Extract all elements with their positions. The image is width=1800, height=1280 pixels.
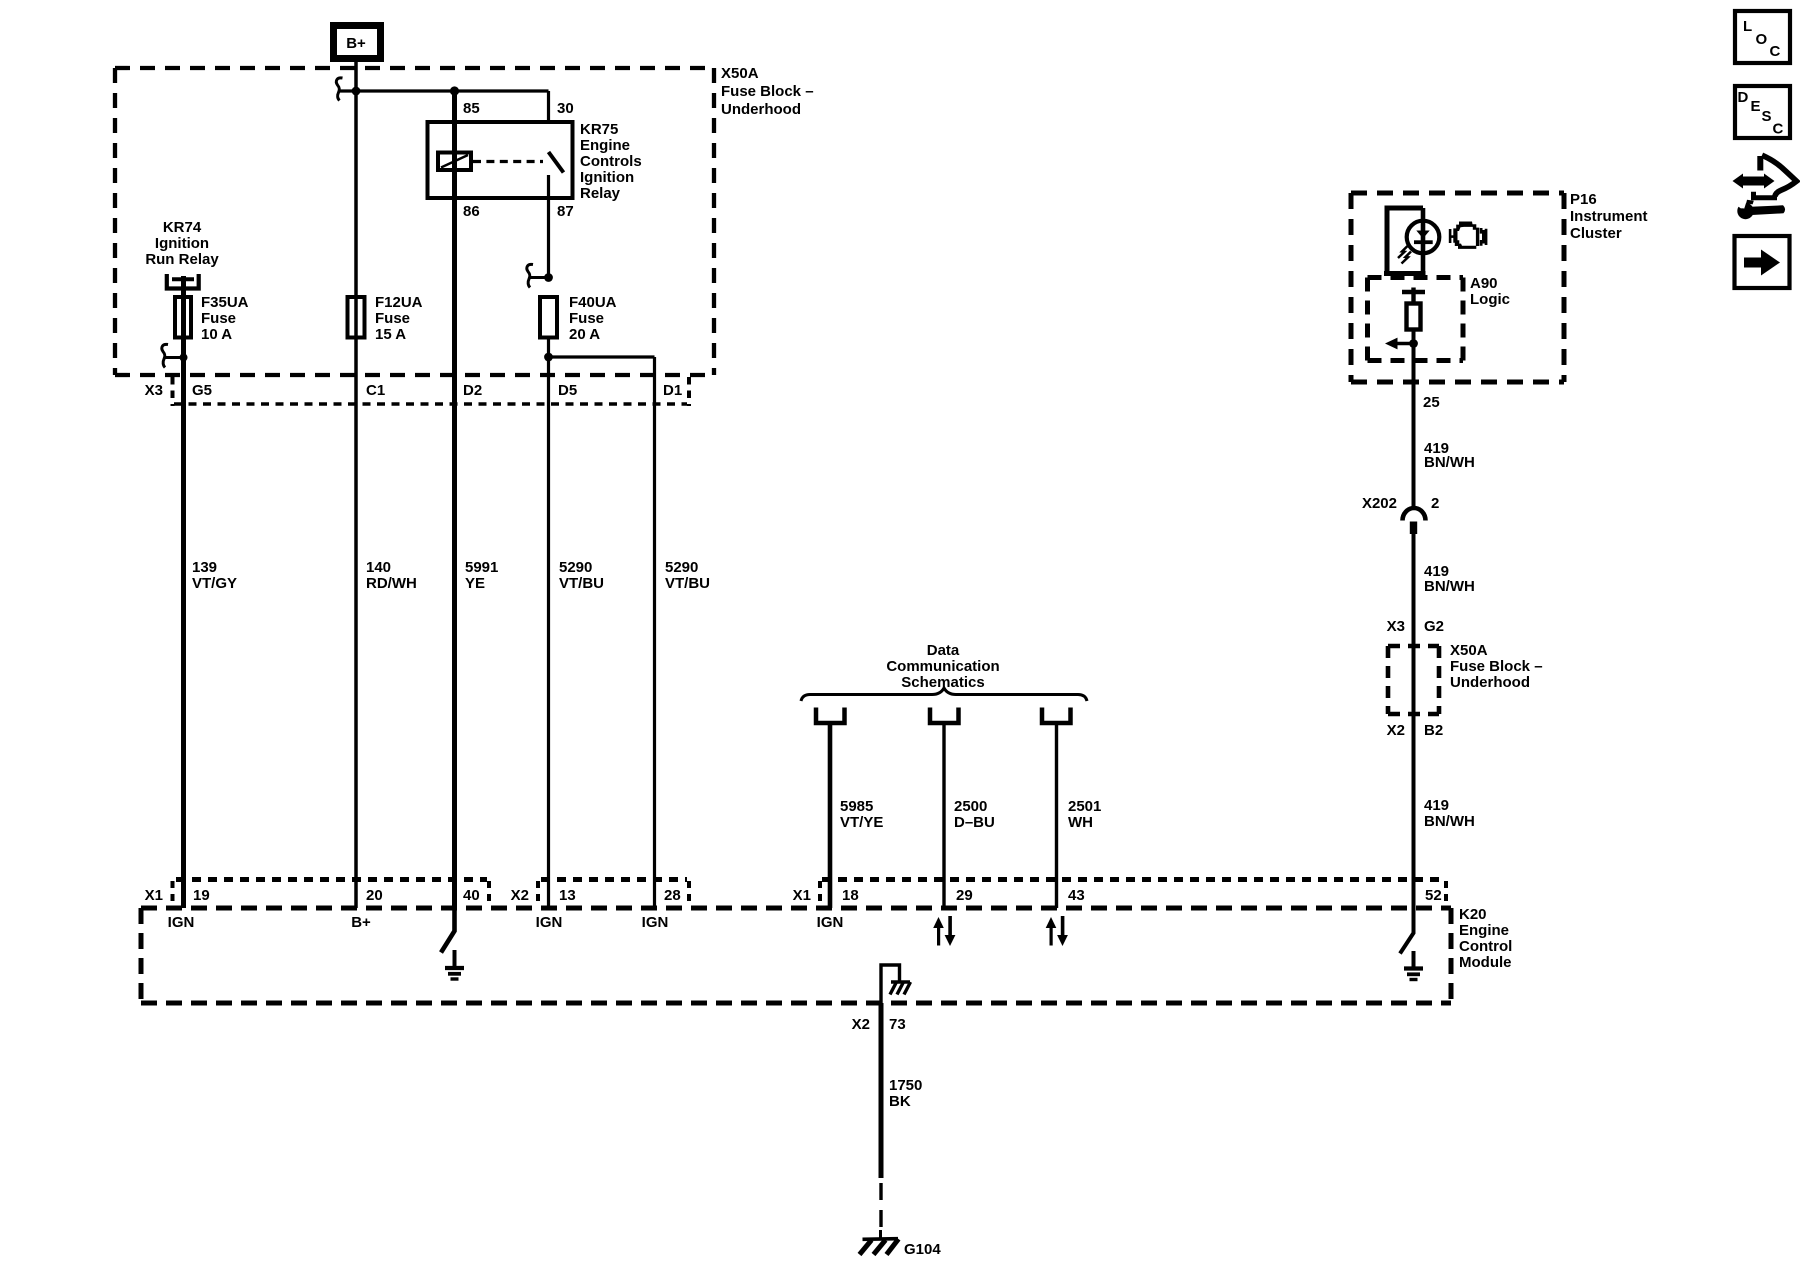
wire MIL output xyxy=(1412,330,1416,509)
icon forward arrow box xyxy=(1735,236,1790,288)
wire label 5290 VT/BU (D5) xyxy=(559,559,604,592)
bidirectional arrows pin 29 xyxy=(933,916,955,946)
svg-text:19: 19 xyxy=(193,887,210,904)
svg-text:BN/WH: BN/WH xyxy=(1424,813,1475,830)
svg-text:Fuse: Fuse xyxy=(375,310,410,327)
svg-text:5991: 5991 xyxy=(465,559,498,576)
svg-text:BN/WH: BN/WH xyxy=(1424,454,1475,471)
wire pin 85 xyxy=(452,91,457,908)
svg-text:2: 2 xyxy=(1431,495,1439,512)
fuse block X50A right dashed box xyxy=(1388,646,1439,714)
wire 1750 solid xyxy=(879,1003,884,1178)
svg-text:43: 43 xyxy=(1068,887,1085,904)
fuse block X50A dashed box xyxy=(115,68,714,375)
ECM K20 dashed box xyxy=(141,908,1451,1003)
resistor A90 body xyxy=(1407,304,1421,330)
svg-text:Instrument: Instrument xyxy=(1570,208,1648,225)
instrument cluster P16 dashed box xyxy=(1351,193,1564,382)
svg-text:X2: X2 xyxy=(852,1016,870,1033)
svg-text:29: 29 xyxy=(956,887,973,904)
svg-text:L: L xyxy=(1743,18,1752,35)
icon outline blob xyxy=(1754,155,1797,198)
svg-text:VT/BU: VT/BU xyxy=(559,575,604,592)
svg-text:18: 18 xyxy=(842,887,859,904)
ECM connector dotted line segment X2 xyxy=(541,877,687,882)
svg-text:D–BU: D–BU xyxy=(954,814,995,831)
svg-text:C: C xyxy=(1770,43,1781,60)
wire KR74 output xyxy=(181,276,186,908)
fuse block connector row dotted line xyxy=(174,402,687,406)
ECM separator 6 xyxy=(1444,881,1448,906)
internal ground wire near pin 73 xyxy=(881,965,900,1003)
svg-text:5290: 5290 xyxy=(559,559,592,576)
svg-text:1750: 1750 xyxy=(889,1077,922,1094)
svg-text:IGN: IGN xyxy=(168,914,195,931)
switch blade pin 52 xyxy=(1400,908,1414,954)
svg-text:B+: B+ xyxy=(351,914,371,931)
svg-text:Data: Data xyxy=(927,642,960,659)
svg-text:52: 52 xyxy=(1425,887,1442,904)
svg-text:IGN: IGN xyxy=(817,914,844,931)
relay KR75 switch blade xyxy=(549,152,564,173)
svg-text:40: 40 xyxy=(463,887,480,904)
lamp ray strokes xyxy=(1398,246,1411,264)
svg-text:25: 25 xyxy=(1423,394,1440,411)
off-page curl G5 branch xyxy=(166,356,184,359)
logic block A90 dashed box xyxy=(1368,278,1464,361)
svg-text:73: 73 xyxy=(889,1016,906,1033)
svg-text:Underhood: Underhood xyxy=(1450,674,1530,691)
relay KR74 terminal socket xyxy=(167,274,199,289)
ECM separator 3 xyxy=(536,881,540,906)
wire label 5991 YE xyxy=(465,559,498,592)
svg-text:E: E xyxy=(1751,98,1761,115)
ECM connector dotted line segment mid xyxy=(822,877,1444,882)
svg-text:G5: G5 xyxy=(192,382,212,399)
svg-text:Module: Module xyxy=(1459,954,1512,971)
label A90 Logic xyxy=(1470,275,1510,308)
svg-text:KR75: KR75 xyxy=(580,121,618,138)
wire label 5985 VT/YE xyxy=(840,798,883,831)
svg-text:20 A: 20 A xyxy=(569,326,600,343)
label X50A Fuse Block Underhood right xyxy=(1450,642,1543,691)
power symbol B+ xyxy=(334,26,381,59)
label F12UA Fuse 15 A xyxy=(375,294,423,343)
wire label 1750 BK xyxy=(889,1077,922,1110)
svg-text:KR74: KR74 xyxy=(163,219,202,236)
wire B+ vertical to pin 20 xyxy=(354,62,358,908)
svg-text:Relay: Relay xyxy=(580,185,621,202)
data terminal 1 xyxy=(816,708,845,724)
svg-text:5290: 5290 xyxy=(665,559,698,576)
svg-text:X50A: X50A xyxy=(1450,642,1488,659)
wire 419 to pin 52 xyxy=(1412,534,1416,908)
svg-text:5985: 5985 xyxy=(840,798,873,815)
switch blade pin 40 xyxy=(441,908,455,953)
wire label 2500 D-BU xyxy=(954,798,995,831)
svg-text:VT/BU: VT/BU xyxy=(665,575,710,592)
svg-text:Fuse Block –: Fuse Block – xyxy=(1450,658,1543,675)
svg-text:15 A: 15 A xyxy=(375,326,406,343)
ground under pin 40 xyxy=(445,950,464,979)
svg-text:140: 140 xyxy=(366,559,391,576)
svg-text:85: 85 xyxy=(463,100,480,117)
svg-text:BN/WH: BN/WH xyxy=(1424,578,1475,595)
icon DESC box xyxy=(1735,86,1790,138)
svg-text:A90: A90 xyxy=(1470,275,1498,292)
ECM separator 1 xyxy=(171,881,175,906)
icon wrench xyxy=(1733,197,1785,219)
svg-text:G104: G104 xyxy=(904,1241,941,1258)
connector separator X3 xyxy=(171,377,175,406)
svg-text:F35UA: F35UA xyxy=(201,294,249,311)
svg-text:Fuse: Fuse xyxy=(569,310,604,327)
relay KR75 coil xyxy=(438,153,471,171)
off-page curl above F40UA xyxy=(531,276,549,279)
fuse F40UA xyxy=(540,297,557,338)
svg-text:YE: YE xyxy=(465,575,485,592)
svg-text:2500: 2500 xyxy=(954,798,987,815)
wire 5985 xyxy=(828,723,833,908)
svg-text:Underhood: Underhood xyxy=(721,101,801,118)
svg-text:X50A: X50A xyxy=(721,65,759,82)
junction dot pin85 xyxy=(450,86,459,95)
bidirectional arrows pin 43 xyxy=(1046,916,1068,946)
wire pin 30 xyxy=(547,91,550,123)
engine icon xyxy=(1449,222,1488,249)
label P16 Instrument Cluster xyxy=(1570,191,1648,242)
label KR74 Ignition Run Relay xyxy=(145,219,219,268)
wire 1750 dashed tail xyxy=(879,1183,882,1237)
ECM separator 4 xyxy=(687,881,691,906)
wire label 2501 WH xyxy=(1068,798,1101,831)
svg-text:S: S xyxy=(1762,108,1772,125)
svg-text:Fuse Block –: Fuse Block – xyxy=(721,83,814,100)
svg-text:X3: X3 xyxy=(1387,618,1405,635)
connector separator right end xyxy=(687,377,691,406)
svg-text:Engine: Engine xyxy=(580,137,630,154)
svg-text:F12UA: F12UA xyxy=(375,294,423,311)
chassis ground internal xyxy=(890,982,911,995)
wire 2500 xyxy=(942,723,945,908)
svg-text:C: C xyxy=(1773,121,1784,138)
svg-text:X202: X202 xyxy=(1362,495,1397,512)
wire label 139 VT/GY xyxy=(192,559,237,592)
off-page curl at feed xyxy=(336,78,342,101)
svg-text:RD/WH: RD/WH xyxy=(366,575,417,592)
svg-text:Fuse: Fuse xyxy=(201,310,236,327)
svg-text:10 A: 10 A xyxy=(201,326,232,343)
fuse F12UA xyxy=(348,297,365,338)
svg-text:K20: K20 xyxy=(1459,906,1487,923)
junction dot B+ xyxy=(352,87,361,96)
svg-text:VT/GY: VT/GY xyxy=(192,575,237,592)
svg-text:86: 86 xyxy=(463,203,480,220)
svg-text:D: D xyxy=(1738,89,1749,106)
svg-text:X1: X1 xyxy=(793,887,811,904)
svg-text:Ignition: Ignition xyxy=(580,169,634,186)
label F35UA Fuse 10 A xyxy=(201,294,249,343)
svg-text:Control: Control xyxy=(1459,938,1512,955)
icon LOC box xyxy=(1735,11,1790,63)
ground under pin 52 xyxy=(1404,951,1423,980)
label X50A Fuse Block Underhood xyxy=(721,65,814,118)
ECM separator 2 xyxy=(487,881,491,906)
svg-text:P16: P16 xyxy=(1570,191,1597,208)
svg-text:X2: X2 xyxy=(1387,722,1405,739)
wire branch to D1 xyxy=(549,355,655,358)
icon double arrow xyxy=(1733,174,1775,189)
svg-text:BK: BK xyxy=(889,1093,911,1110)
junction dot A90 xyxy=(1409,339,1418,348)
ground G104 xyxy=(860,1230,899,1255)
svg-text:Ignition: Ignition xyxy=(155,235,209,252)
wire D5 down to pin 13 xyxy=(547,338,550,909)
svg-text:Cluster: Cluster xyxy=(1570,225,1622,242)
svg-text:20: 20 xyxy=(366,887,383,904)
svg-text:X3: X3 xyxy=(145,382,163,399)
svg-text:13: 13 xyxy=(559,887,576,904)
svg-text:B+: B+ xyxy=(346,35,366,52)
svg-text:F40UA: F40UA xyxy=(569,294,617,311)
label F40UA Fuse 20 A xyxy=(569,294,617,343)
wire 2501 xyxy=(1055,723,1058,908)
label K20 Engine Control Module xyxy=(1459,906,1512,971)
relay KR75 coil-switch dashed link xyxy=(473,160,543,163)
indicator lamp circle xyxy=(1407,221,1440,254)
svg-text:X1: X1 xyxy=(145,887,163,904)
svg-text:WH: WH xyxy=(1068,814,1093,831)
resistor A90 top bar xyxy=(1402,290,1425,294)
relay KR75 box xyxy=(428,122,573,198)
wire label 419 BN/WH lower xyxy=(1424,797,1475,830)
wire top horizontal feed xyxy=(340,89,549,92)
wire pin 87 xyxy=(547,175,550,278)
svg-text:Logic: Logic xyxy=(1470,291,1510,308)
svg-text:C1: C1 xyxy=(366,382,385,399)
svg-text:D1: D1 xyxy=(663,382,682,399)
indicator lamp outline xyxy=(1387,208,1423,272)
svg-text:G2: G2 xyxy=(1424,618,1444,635)
wire label 140 RD/WH xyxy=(366,559,417,592)
svg-text:VT/YE: VT/YE xyxy=(840,814,883,831)
svg-text:IGN: IGN xyxy=(642,914,669,931)
ECM separator 5 xyxy=(818,881,822,906)
svg-text:139: 139 xyxy=(192,559,217,576)
svg-text:419: 419 xyxy=(1424,797,1449,814)
svg-text:2501: 2501 xyxy=(1068,798,1101,815)
wire label 5290 VT/BU (D1) xyxy=(665,559,710,592)
svg-text:28: 28 xyxy=(664,887,681,904)
svg-text:Engine: Engine xyxy=(1459,922,1509,939)
label KR75 Engine Controls Ignition Relay xyxy=(580,121,642,202)
svg-text:B2: B2 xyxy=(1424,722,1443,739)
svg-text:30: 30 xyxy=(557,100,574,117)
junction dot D5/D1 xyxy=(544,353,553,362)
label Data Communication Schematics xyxy=(886,642,999,691)
data terminal 3 xyxy=(1042,708,1071,724)
wire D1 down to pin 28 xyxy=(653,357,656,908)
svg-text:X2: X2 xyxy=(511,887,529,904)
svg-text:D5: D5 xyxy=(558,382,577,399)
ECM connector dotted line segment X1 xyxy=(176,877,487,882)
data terminal 2 xyxy=(930,708,959,724)
relay KR74 terminal pin xyxy=(172,277,194,281)
brace xyxy=(801,688,1087,701)
svg-text:87: 87 xyxy=(557,203,574,220)
arrow to logic xyxy=(1397,342,1414,345)
wire label 419 BN/WH upper xyxy=(1424,440,1475,471)
svg-text:O: O xyxy=(1756,31,1768,48)
svg-text:Run Relay: Run Relay xyxy=(145,251,219,268)
svg-text:Communication: Communication xyxy=(886,658,999,675)
svg-text:Controls: Controls xyxy=(580,153,642,170)
svg-text:D2: D2 xyxy=(463,382,482,399)
fuse F35UA xyxy=(175,297,191,338)
svg-text:IGN: IGN xyxy=(536,914,563,931)
LED arrow inside lamp xyxy=(1414,231,1433,245)
wire label 419 BN/WH middle xyxy=(1424,563,1475,595)
